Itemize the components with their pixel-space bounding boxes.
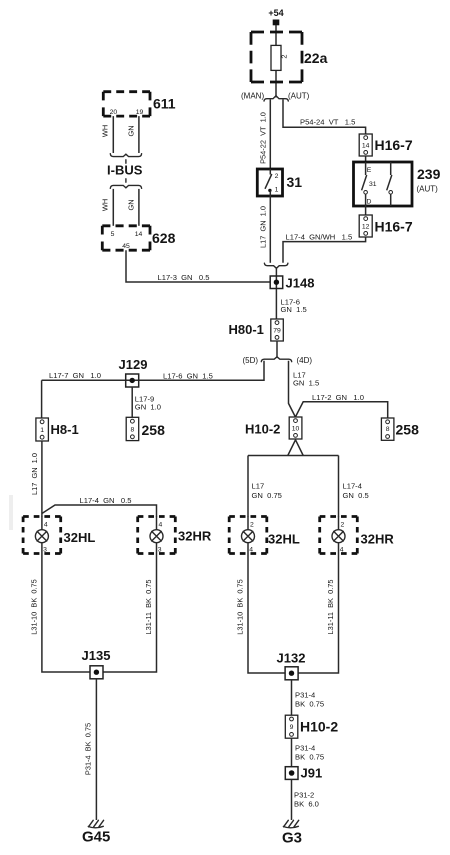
svg-text:10: 10 xyxy=(292,426,300,433)
svg-text:1: 1 xyxy=(40,427,44,434)
connector 258 pin 8 (left) xyxy=(126,417,165,440)
svg-text:P54-24 VT 1.5: P54-24 VT 1.5 xyxy=(300,118,355,127)
terminal +54 xyxy=(273,20,280,26)
junction J135 xyxy=(82,648,111,679)
svg-text:D: D xyxy=(367,199,372,206)
wire 611 pin20 WH xyxy=(112,116,114,153)
connector H10-2 pin 9 xyxy=(285,715,338,738)
svg-text:G3: G3 xyxy=(282,830,302,847)
svg-text:L17-4 GN 0.5: L17-4 GN 0.5 xyxy=(80,496,132,505)
svg-text:L31-11 BK 0.75: L31-11 BK 0.75 xyxy=(326,580,335,635)
svg-text:31: 31 xyxy=(287,174,303,190)
I-BUS dashed link lower xyxy=(125,179,127,182)
svg-text:4: 4 xyxy=(159,521,163,528)
wire 4D branch down to H10-2 xyxy=(289,361,296,417)
svg-text:19: 19 xyxy=(136,109,144,116)
svg-text:22a: 22a xyxy=(304,50,328,66)
wire split below H10-2 pin10 xyxy=(288,440,303,456)
svg-text:2: 2 xyxy=(275,173,279,180)
scan artifact smudge xyxy=(9,495,13,530)
svg-text:P31-4: P31-4 xyxy=(295,743,315,752)
switch unit 239 (AUT) xyxy=(354,162,441,206)
connector H80-1 pin 79 xyxy=(229,319,284,341)
svg-text:G45: G45 xyxy=(82,829,110,846)
svg-text:L31-10 BK 0.75: L31-10 BK 0.75 xyxy=(235,579,244,634)
svg-text:L31-11 BK 0.75: L31-11 BK 0.75 xyxy=(144,580,153,635)
splice split symbol below fuse xyxy=(264,96,288,101)
wire J129 down to 258 xyxy=(131,387,133,417)
fuse box 22a (dashed) xyxy=(251,32,302,82)
svg-text:P31-4: P31-4 xyxy=(295,690,315,699)
lamp 32HR (right) xyxy=(320,517,395,554)
svg-text:45: 45 xyxy=(122,243,130,250)
svg-text:5: 5 xyxy=(111,231,115,238)
wire H10-2 to J91 xyxy=(291,738,293,767)
svg-text:258: 258 xyxy=(142,422,166,438)
svg-text:2: 2 xyxy=(280,54,289,58)
svg-text:BK 0.75: BK 0.75 xyxy=(295,700,324,709)
wire H8-1 down to lamp 32HL left xyxy=(41,441,43,517)
svg-text:32HL: 32HL xyxy=(64,530,96,545)
junction J91 xyxy=(285,766,322,781)
svg-text:20: 20 xyxy=(110,109,118,116)
wire +54 to fuse xyxy=(275,25,277,98)
wire J129 left to H8-1 xyxy=(41,380,43,418)
svg-text:L17-6 GN 1.5: L17-6 GN 1.5 xyxy=(163,372,213,381)
svg-text:L17-4: L17-4 xyxy=(343,482,362,491)
svg-text:12: 12 xyxy=(362,224,370,231)
svg-text:GN 0.75: GN 0.75 xyxy=(252,491,282,500)
svg-text:(MAN): (MAN) xyxy=(241,92,264,101)
svg-text:L17: L17 xyxy=(252,482,265,491)
twisted pair bracket lower xyxy=(110,185,141,188)
svg-text:GN: GN xyxy=(126,125,135,136)
svg-text:BK 0.75: BK 0.75 xyxy=(295,753,324,762)
svg-text:L17 GN 1.0: L17 GN 1.0 xyxy=(259,206,268,248)
svg-text:32HR: 32HR xyxy=(178,529,212,544)
wire 611 pin19 GN xyxy=(138,116,140,153)
switch 31 (MAN) xyxy=(257,169,302,196)
wire down to lamp 32HR right xyxy=(338,456,340,518)
wire to 628 pin5 WH xyxy=(112,189,114,226)
svg-text:14: 14 xyxy=(362,143,370,150)
wire branch L17-2 to 258 right xyxy=(295,402,387,418)
fuse element 22a xyxy=(271,45,281,70)
wire J135 down to G45 xyxy=(95,679,97,820)
junction J132 xyxy=(277,651,306,680)
lamp 32HR (left) xyxy=(138,517,212,554)
split symbol 5D/4D xyxy=(261,357,291,362)
svg-text:32HL: 32HL xyxy=(268,532,300,547)
svg-text:L17-7 GN 1.0: L17-7 GN 1.0 xyxy=(49,371,101,380)
wire lamp 32HR left down to J135 xyxy=(103,554,157,673)
svg-text:J132: J132 xyxy=(277,651,306,666)
svg-text:WH: WH xyxy=(100,199,109,211)
svg-text:H80-1: H80-1 xyxy=(229,322,264,337)
svg-text:31: 31 xyxy=(369,181,377,188)
wire lamp 32HL right down to J132 xyxy=(248,554,285,674)
wire switch 31 down to merge xyxy=(269,196,271,263)
connector H10-2 pin 10 xyxy=(245,417,302,439)
svg-text:(4D): (4D) xyxy=(297,356,313,365)
ground G3 xyxy=(282,820,302,846)
svg-text:H8-1: H8-1 xyxy=(51,422,79,437)
junction J129 xyxy=(119,357,148,387)
svg-text:3: 3 xyxy=(158,547,162,554)
svg-text:L17-3 GN 0.5: L17-3 GN 0.5 xyxy=(158,273,210,282)
wire (AUT) branch to H16-7 xyxy=(283,99,366,134)
svg-text:(5D): (5D) xyxy=(243,356,259,365)
svg-text:9: 9 xyxy=(290,724,294,731)
wire 239 to H16-7 pin 12 xyxy=(365,206,367,215)
svg-text:L17-2 GN 1.0: L17-2 GN 1.0 xyxy=(312,393,364,402)
svg-text:J148: J148 xyxy=(286,276,315,291)
svg-text:3: 3 xyxy=(43,547,47,554)
svg-text:E: E xyxy=(367,167,372,174)
wire merge to J148 xyxy=(275,268,277,277)
svg-text:14: 14 xyxy=(135,231,143,238)
svg-text:WH: WH xyxy=(100,125,109,137)
svg-text:4: 4 xyxy=(249,547,253,554)
wire 628 pin45 to J148 xyxy=(126,250,270,282)
svg-text:628: 628 xyxy=(152,230,176,246)
control unit 611 (dashed) xyxy=(103,92,175,116)
svg-text:H16-7: H16-7 xyxy=(375,137,413,153)
connector 258 pin 8 (right) xyxy=(381,418,419,440)
wire H80-1 to split xyxy=(276,341,278,357)
svg-text:+54: +54 xyxy=(268,8,283,18)
control unit 628 (dashed) xyxy=(102,226,175,250)
svg-text:GN 1.0: GN 1.0 xyxy=(135,403,161,412)
wire J132 down to H10-2 pin9 xyxy=(291,680,293,715)
twisted pair bracket upper xyxy=(110,154,141,157)
svg-text:P31-2: P31-2 xyxy=(294,790,314,799)
svg-text:GN: GN xyxy=(126,199,135,210)
svg-text:239: 239 xyxy=(417,166,441,182)
I-BUS dashed link xyxy=(125,160,127,163)
svg-text:1: 1 xyxy=(275,187,279,194)
svg-text:2: 2 xyxy=(250,521,254,528)
svg-text:4: 4 xyxy=(44,521,48,528)
wire branch L17-4 to lamp 32HR left xyxy=(42,505,157,517)
svg-text:2: 2 xyxy=(341,521,345,528)
wire down to lamp 32HL right xyxy=(247,456,249,518)
merge symbol above J148 xyxy=(264,263,288,268)
svg-text:BK 6.0: BK 6.0 xyxy=(294,800,319,809)
svg-text:79: 79 xyxy=(273,328,281,335)
ground G45 xyxy=(82,820,110,845)
svg-text:J135: J135 xyxy=(82,648,111,663)
svg-text:L17-4 GN/WH 1.5: L17-4 GN/WH 1.5 xyxy=(286,233,353,242)
svg-text:P54-22 VT 1.0: P54-22 VT 1.0 xyxy=(259,112,268,164)
junction J148 xyxy=(270,276,314,320)
svg-text:H16-7: H16-7 xyxy=(375,219,413,235)
svg-text:I-BUS: I-BUS xyxy=(107,162,143,177)
wire lamp 32HR right down to J132 xyxy=(298,554,339,674)
lamp 32HL (left) xyxy=(23,517,95,554)
wire H16-7 to 239 xyxy=(365,156,367,162)
svg-text:H10-2: H10-2 xyxy=(245,422,280,437)
wire to 628 pin14 GN xyxy=(138,189,140,226)
svg-text:P31-4 BK 0.75: P31-4 BK 0.75 xyxy=(84,723,93,775)
wire H16-7 pin12 down-left to merge xyxy=(283,237,366,263)
lamp 32HL (right) xyxy=(229,517,300,554)
svg-text:4: 4 xyxy=(340,547,344,554)
wire lamp 32HL left down to J135 xyxy=(42,554,90,673)
connector H16-7 pin 12 xyxy=(359,215,413,237)
wire (MAN) branch down to switch 31 xyxy=(269,99,271,169)
wire 5D branch to J129 xyxy=(42,361,264,381)
svg-text:8: 8 xyxy=(131,427,135,434)
svg-text:(AUT): (AUT) xyxy=(417,185,439,194)
svg-text:32HR: 32HR xyxy=(361,532,395,547)
svg-text:GN 1.5: GN 1.5 xyxy=(293,379,319,388)
svg-text:J129: J129 xyxy=(119,357,148,372)
svg-text:J91: J91 xyxy=(301,766,323,781)
wire J91 down to G3 xyxy=(291,779,293,820)
svg-text:L17 GN 1.0: L17 GN 1.0 xyxy=(30,453,39,495)
svg-text:GN 0.5: GN 0.5 xyxy=(343,491,369,500)
svg-text:H10-2: H10-2 xyxy=(300,719,338,735)
svg-text:258: 258 xyxy=(396,422,420,438)
connector H8-1 pin 1 xyxy=(36,418,79,441)
connector H16-7 pin 14 xyxy=(359,134,413,156)
svg-text:(AUT): (AUT) xyxy=(288,92,310,101)
svg-text:GN 1.5: GN 1.5 xyxy=(281,305,307,314)
svg-text:8: 8 xyxy=(386,426,390,433)
svg-text:L31-10 BK 0.75: L31-10 BK 0.75 xyxy=(29,579,38,634)
svg-text:611: 611 xyxy=(153,96,176,112)
